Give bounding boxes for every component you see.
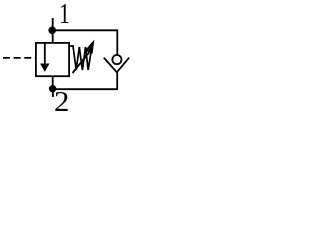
svg-text:1: 1: [59, 0, 70, 30]
wire valve top port: [52, 30, 54, 44]
wire right vertical upper: [116, 29, 118, 55]
junction dot top: [48, 27, 56, 35]
adjustment arrowhead: [85, 40, 95, 54]
wire top horizontal: [52, 29, 117, 31]
valve envelope (square body): [36, 43, 69, 76]
flow path arrow shaft inside valve: [44, 44, 46, 66]
pilot line (dashed): [3, 57, 36, 59]
port stub 1 (top connection line): [52, 18, 54, 32]
wire bottom horizontal: [53, 88, 118, 90]
flow path arrowhead: [40, 64, 49, 72]
adjustment arrow shaft: [73, 53, 90, 74]
check valve V1 seat: [104, 58, 129, 73]
port stub 2 (bottom connection line): [52, 89, 54, 97]
svg-text:2: 2: [54, 87, 69, 117]
wire valve bottom port: [52, 76, 54, 89]
spring (zigzag): [70, 46, 92, 70]
junction dot bottom: [49, 85, 56, 92]
wire right vertical lower: [116, 72, 118, 90]
check valve V1 ball: [112, 55, 121, 64]
